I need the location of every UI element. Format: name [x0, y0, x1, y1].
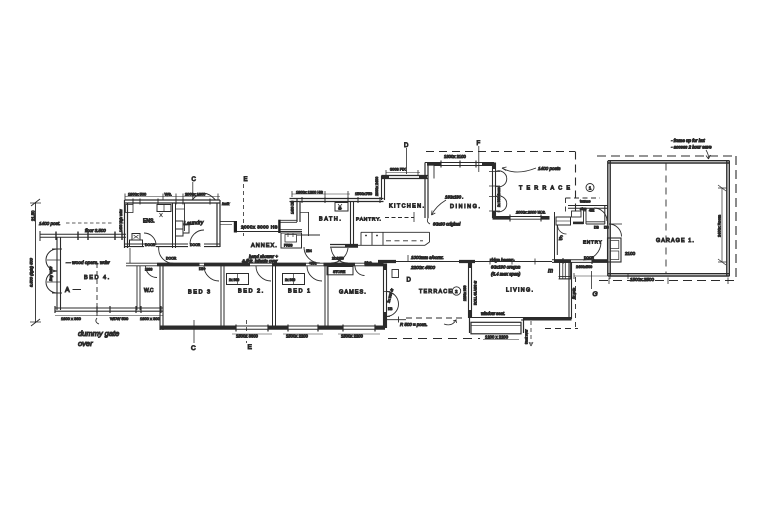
svg-text:(5.4 max span): (5.4 max span)	[491, 272, 521, 277]
laundry bottom wall	[204, 244, 220, 247]
svg-text:1400 posts: 1400 posts	[538, 166, 561, 171]
svg-text:2x 900: 2x 900	[229, 278, 239, 282]
svg-text:ridge beam:-: ridge beam:-	[490, 258, 515, 263]
svg-text:G: G	[593, 291, 598, 298]
prep frig box	[281, 233, 302, 248]
games east wall	[384, 264, 387, 329]
svg-text:Laundry: Laundry	[184, 220, 204, 227]
ens/laundry divider wall	[173, 203, 176, 248]
svg-text:1200 x 2200: 1200 x 2200	[485, 335, 509, 340]
walkway rail to annex	[220, 221, 236, 223]
svg-text:1400 post.: 1400 post.	[39, 221, 60, 226]
wc door arc	[146, 266, 158, 278]
svg-text:21.50: 21.50	[31, 210, 36, 221]
wing bottom wall	[160, 325, 385, 332]
stacked door arcs wall	[489, 163, 507, 219]
bath door arc	[304, 247, 320, 263]
svg-text:21x+: 21x+	[365, 261, 372, 265]
porch step arcs	[558, 225, 567, 234]
svg-text:ENTRY: ENTRY	[583, 240, 603, 245]
svg-text:STORE: STORE	[333, 270, 346, 274]
svg-text:1800x 2100: 1800x 2100	[444, 154, 467, 159]
svg-text:GARAGE 1.: GARAGE 1.	[656, 238, 695, 244]
ens toilet	[130, 234, 143, 247]
arched opening top right	[192, 193, 216, 200]
veranda beam	[40, 231, 126, 241]
long dashed setback line	[388, 338, 480, 340]
svg-text:Bay wdw: Bay wdw	[49, 266, 53, 281]
svg-text:FRIG: FRIG	[284, 244, 293, 248]
window seat box	[470, 318, 524, 334]
pier below entry	[559, 262, 572, 279]
bath top dim line	[292, 191, 350, 197]
ens block left wall	[125, 200, 128, 248]
svg-text:over: over	[78, 339, 93, 348]
bath/pantry divider wall	[351, 202, 354, 248]
svg-text:2: 2	[455, 289, 458, 294]
svg-text:2100: 2100	[625, 251, 636, 256]
svg-text:window seat.: window seat.	[481, 311, 505, 316]
svg-text:3003 FIX: 3003 FIX	[390, 167, 406, 172]
svg-text:BED 3: BED 3	[188, 290, 212, 296]
svg-text:DB: DB	[388, 307, 392, 311]
section line E bottom	[246, 320, 248, 343]
svg-text:C: C	[192, 177, 197, 183]
dim line 2100	[574, 273, 629, 279]
bath inner wall	[308, 212, 310, 236]
svg-text:R 500 ≡ posn.: R 500 ≡ posn.	[400, 322, 427, 327]
svg-text:PANTRY.: PANTRY.	[356, 217, 382, 223]
svg-text:m: m	[548, 269, 553, 275]
svg-text:DB: DB	[604, 226, 609, 230]
svg-text:dummy gate: dummy gate	[78, 329, 119, 338]
svg-text:£: £	[558, 235, 563, 242]
svg-text:2000x 2400: 2000x 2400	[375, 177, 379, 196]
svg-text:ENS.: ENS.	[143, 219, 155, 225]
ens bottom wall	[125, 244, 189, 247]
section line C bottom	[193, 320, 195, 343]
pantry/kitchen bench	[345, 232, 430, 245]
living right wall	[569, 262, 572, 319]
svg-text:BED 1: BED 1	[288, 289, 312, 295]
divider wall bed3/bed2	[221, 266, 224, 327]
bay window arcs	[46, 249, 62, 293]
note arrow	[706, 150, 709, 159]
arrow to kitchen corner	[432, 200, 447, 215]
garage right wall	[727, 161, 730, 276]
svg-text:1: 1	[589, 186, 592, 191]
svg-text:BED 2.: BED 2.	[238, 289, 265, 295]
svg-text:2000x 2000 W.S.: 2000x 2000 W.S.	[515, 210, 546, 215]
ne jog wall	[433, 166, 435, 179]
svg-text:1000mm s/cornr.: 1000mm s/cornr.	[411, 255, 444, 260]
svg-text:1800 x 300: 1800 x 300	[140, 316, 161, 321]
svg-text:90x190 oregon: 90x190 oregon	[491, 265, 521, 270]
garage left wall	[608, 161, 610, 276]
dashed below living right	[545, 328, 578, 330]
bath shower box	[335, 203, 348, 212]
svg-text:KITCHEN.: KITCHEN.	[389, 204, 425, 210]
garage inner dim line	[718, 185, 727, 265]
garage bottom wall	[608, 274, 730, 276]
dining south wall	[493, 215, 550, 222]
laundry door arc	[190, 230, 204, 244]
svg-text:E: E	[248, 344, 253, 351]
svg-text:90x90 original: 90x90 original	[433, 222, 461, 227]
svg-text:track over: track over	[525, 329, 529, 344]
walkway rail lower	[237, 230, 302, 232]
vestibule right wall	[605, 206, 608, 225]
vestibule top wall	[568, 206, 608, 209]
svg-text:C: C	[191, 345, 196, 352]
svg-text:E: E	[244, 177, 248, 183]
svg-text:1800x 1200 HS: 1800x 1200 HS	[296, 190, 323, 195]
left overall dimension line	[30, 199, 41, 326]
svg-text:ROLL GLASS dr: ROLL GLASS dr	[474, 280, 478, 305]
svg-text:D: D	[407, 278, 412, 284]
section line G	[591, 271, 593, 289]
ens block top dim line	[125, 194, 220, 200]
roof dashed corner right	[575, 152, 577, 213]
divider wall bed1/games	[325, 266, 328, 327]
svg-text:1400 high wdw: 1400 high wdw	[119, 209, 123, 232]
svg-text:floor 3.500: floor 3.500	[85, 228, 106, 233]
garage centre dashed	[665, 164, 667, 274]
svg-text:DINING.: DINING.	[450, 204, 482, 210]
svg-text:1800 x 360: 1800 x 360	[61, 316, 82, 321]
svg-text:DB: DB	[594, 226, 599, 230]
ens block top wall	[125, 200, 221, 203]
kitchen left wall	[382, 176, 385, 201]
svg-text:8.500 (light) 500: 8.500 (light) 500	[29, 257, 34, 287]
vestibule bottom wall	[586, 222, 605, 224]
terrace post dashed	[387, 319, 406, 321]
svg-text:452: 452	[589, 209, 595, 213]
bed2 robe	[227, 274, 249, 285]
svg-text:WDW 500: WDW 500	[110, 316, 129, 321]
svg-text:— wood opera. wdw: — wood opera. wdw	[65, 260, 110, 266]
entry door arc	[583, 243, 601, 261]
bath bottom walls	[297, 234, 320, 236]
entry bottom wall emphasis	[555, 259, 572, 262]
svg-text:2400x500: 2400x500	[576, 265, 592, 269]
garage roof dashed right	[735, 156, 737, 281]
wc left wall	[137, 266, 140, 310]
garage roof dashed bottom	[599, 280, 736, 282]
section line to dummy gate	[96, 263, 98, 318]
annex east wall	[281, 220, 298, 222]
svg-text:160x190 .: 160x190 .	[445, 195, 463, 200]
walkway post	[234, 221, 237, 233]
games french doors to terrace	[387, 292, 399, 305]
porch bench	[556, 217, 571, 225]
svg-text:2200x 4500: 2200x 4500	[410, 265, 435, 270]
terrace2 top beam	[378, 261, 475, 263]
svg-text:M: M	[339, 207, 342, 211]
wing top wall	[126, 263, 384, 266]
bed3 door arc	[204, 266, 219, 281]
bed1 robe	[283, 274, 305, 285]
living bottom wall	[472, 318, 572, 321]
svg-text:2000x 3000 HS: 2000x 3000 HS	[241, 225, 278, 230]
svg-text:TERRACE: TERRACE	[419, 289, 453, 295]
svg-text:- frame up for hut: - frame up for hut	[671, 138, 705, 143]
linen double doors	[331, 248, 348, 263]
ens block right wall	[217, 200, 220, 247]
svg-text:1500x750: 1500x750	[355, 191, 373, 196]
kitchen bench dashed	[385, 217, 414, 219]
svg-text:TERRACE: TERRACE	[519, 186, 574, 192]
svg-text:DOOR: DOOR	[190, 243, 201, 247]
svg-text:ANNEX.: ANNEX.	[251, 243, 278, 249]
svg-text:DOOR: DOOR	[145, 243, 156, 247]
porch dashed outline	[566, 197, 601, 199]
entry right door arc	[609, 224, 622, 237]
svg-text:2x 900: 2x 900	[285, 278, 295, 282]
svg-text:1500x 2500: 1500x 2500	[630, 277, 654, 282]
garage roof dashed top	[597, 155, 734, 157]
svg-text:W.C: W.C	[144, 288, 154, 294]
kitchen top wall	[382, 176, 428, 179]
bed4 bottom wall	[55, 306, 163, 313]
laundry tub	[176, 221, 190, 236]
roof dashed line top	[426, 151, 575, 153]
bath/pantry top wall	[290, 199, 384, 202]
truck dashed line	[530, 321, 532, 344]
dining north wall	[425, 161, 495, 168]
dashed vert at living right	[575, 277, 577, 330]
svg-text:A: A	[65, 287, 70, 294]
annex post bar	[278, 220, 280, 233]
svg-text:LIVING.: LIVING.	[506, 288, 534, 294]
svg-text:DB.: DB.	[243, 261, 249, 265]
svg-text:DOOR: DOOR	[166, 257, 177, 261]
ens door arc	[144, 233, 156, 245]
divider wall bed2/bed1	[273, 266, 276, 327]
ens basin bench	[157, 205, 171, 218]
ens left wall lower stub	[129, 248, 131, 263]
vestibule door arc	[594, 208, 607, 221]
hall door arc below ens	[159, 250, 174, 264]
ens shelf box	[126, 205, 134, 213]
kitchen right wall	[425, 163, 428, 219]
entry closet	[608, 238, 622, 262]
living top wall right	[552, 260, 555, 263]
vestibule inner box	[572, 211, 582, 217]
svg-text:terrace: terrace	[580, 200, 591, 204]
garage top wall	[608, 161, 730, 163]
games wardrobe box	[392, 270, 399, 278]
living top window line	[475, 259, 552, 265]
svg-text:GAMES.: GAMES.	[339, 290, 367, 296]
svg-text:BATH.: BATH.	[319, 217, 342, 223]
bed1 door arc	[307, 266, 322, 281]
vestibule inner wall	[584, 208, 587, 224]
svg-text:2400x Room: 2400x Room	[717, 215, 722, 237]
svg-text:WS.: WS.	[165, 192, 172, 197]
svg-text:- access 2 hour save: - access 2 hour save	[671, 145, 712, 150]
entry bottom wall	[555, 258, 609, 264]
bed2 door arc	[256, 266, 271, 281]
svg-text:1800x 500: 1800x 500	[128, 192, 147, 197]
svg-text:1400 DB: 1400 DB	[291, 200, 295, 214]
wc right wall / step wall	[160, 266, 163, 330]
svg-text:2B4: 2B4	[306, 249, 312, 253]
svg-text:2200x 600: 2200x 600	[463, 285, 467, 301]
svg-text:kwik: kwik	[222, 202, 230, 206]
svg-text:2x 900 doors: 2x 900 doors	[497, 187, 501, 207]
games door arc	[355, 266, 365, 276]
games store box	[327, 257, 353, 275]
living left wall	[469, 262, 472, 318]
bed4 left wall	[57, 237, 61, 310]
bath left wall	[297, 199, 300, 223]
porch left wall	[555, 212, 558, 262]
